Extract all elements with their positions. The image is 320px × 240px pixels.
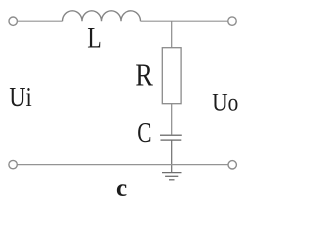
capacitor C plate top: [160, 134, 182, 136]
wire top-left segment: [18, 20, 63, 22]
svg-text:L: L: [87, 22, 102, 55]
ground bar 1: [162, 172, 182, 174]
svg-text:C: C: [137, 118, 151, 149]
svg-text:R: R: [135, 58, 153, 93]
resistor R: [162, 48, 181, 104]
capacitor C plate bottom: [161, 139, 182, 141]
terminal bottom-left: [9, 160, 17, 168]
wire capacitor to ground: [171, 140, 173, 173]
svg-text:Ui: Ui: [9, 82, 31, 112]
ground bar 2: [165, 175, 178, 177]
wire resistor to capacitor: [171, 104, 173, 136]
terminal top-right: [228, 17, 236, 25]
ground bar 3: [169, 179, 175, 181]
terminal top-left: [9, 17, 17, 25]
node junction wire to resistor: [171, 21, 173, 48]
terminal bottom-right: [228, 161, 236, 169]
bottom rail wire: [18, 164, 228, 166]
svg-text:Uo: Uo: [212, 90, 238, 117]
svg-text:c: c: [116, 175, 127, 202]
wire top-right segment: [141, 20, 228, 22]
inductor L: [63, 11, 141, 21]
